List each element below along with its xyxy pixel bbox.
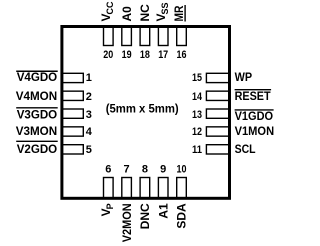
chip body U1 (QFN-20 package outline) [62, 27, 230, 199]
svg-text:V3MON: V3MON [16, 124, 58, 138]
svg-text:16: 16 [177, 49, 187, 61]
pin 4 pad [62, 127, 84, 136]
svg-text:MR: MR [172, 5, 186, 21]
svg-text:7: 7 [124, 163, 130, 175]
svg-text:SCL: SCL [235, 142, 256, 156]
pin 8 pad [140, 178, 150, 199]
svg-text:V2MON: V2MON [120, 203, 134, 242]
svg-text:9: 9 [160, 163, 166, 175]
svg-text:DNC: DNC [138, 203, 152, 229]
pin 2 pad [62, 91, 84, 100]
pin 3 label V3GDO with overline [16, 108, 58, 122]
pin 13 label V1GDO with overline [235, 109, 274, 123]
svg-text:V3GDO: V3GDO [17, 108, 58, 122]
svg-text:V1MON: V1MON [235, 124, 275, 138]
svg-text:13: 13 [192, 109, 202, 121]
pin 3 pad [62, 109, 84, 118]
svg-text:SDA: SDA [175, 203, 189, 229]
pin 7 pad [122, 178, 132, 199]
pin 6 pad [104, 178, 114, 199]
svg-text:15: 15 [192, 72, 202, 84]
svg-text:19: 19 [122, 49, 132, 61]
pin 1 label V4GDO with overline [16, 70, 58, 84]
svg-text:A0: A0 [120, 6, 134, 22]
pin 12 pad [206, 127, 229, 136]
svg-text:12: 12 [192, 126, 202, 138]
pin 13 pad [206, 109, 229, 118]
pin 15 pad [206, 73, 229, 82]
pin 10 pad [177, 178, 187, 199]
svg-text:2: 2 [86, 91, 92, 103]
pin 14 label RESET with overline [235, 89, 272, 103]
svg-text:VP: VP [99, 203, 115, 216]
svg-text:18: 18 [140, 49, 150, 61]
svg-text:(5mm x 5mm): (5mm x 5mm) [106, 101, 179, 115]
pin 9 pad [158, 178, 168, 199]
svg-text:6: 6 [105, 163, 111, 175]
svg-text:WP: WP [235, 70, 253, 84]
pin 17 pad [158, 26, 168, 46]
svg-text:V1GDO: V1GDO [235, 109, 274, 123]
svg-text:V4MON: V4MON [16, 89, 58, 103]
svg-text:NC: NC [138, 4, 152, 22]
pin 16 label MR with overline (rotated) [172, 5, 186, 22]
svg-text:14: 14 [192, 91, 203, 103]
pin 19 pad [122, 26, 132, 46]
svg-text:17: 17 [158, 49, 168, 61]
svg-text:VCC: VCC [99, 1, 115, 22]
svg-text:20: 20 [103, 49, 113, 61]
svg-text:5: 5 [86, 144, 92, 156]
svg-text:1: 1 [86, 72, 92, 84]
svg-text:4: 4 [86, 126, 93, 138]
svg-text:V2GDO: V2GDO [17, 142, 58, 156]
pin 20 pad [104, 26, 114, 46]
svg-text:V4GDO: V4GDO [17, 70, 58, 84]
svg-text:A1: A1 [156, 203, 170, 219]
pin 1 pad [62, 73, 84, 82]
pin 18 pad [140, 26, 150, 46]
svg-text:11: 11 [192, 144, 202, 156]
chip body border [62, 27, 230, 199]
pin 14 pad [206, 91, 229, 100]
svg-text:10: 10 [177, 163, 187, 175]
svg-text:RESET: RESET [235, 89, 272, 103]
svg-text:3: 3 [86, 109, 92, 121]
pin 16 pad [177, 26, 187, 46]
svg-text:8: 8 [142, 163, 148, 175]
pin 11 pad [206, 145, 229, 154]
pin 5 pad [62, 145, 84, 154]
pin 5 label V2GDO with overline [16, 141, 58, 156]
svg-text:VSS: VSS [154, 2, 170, 21]
